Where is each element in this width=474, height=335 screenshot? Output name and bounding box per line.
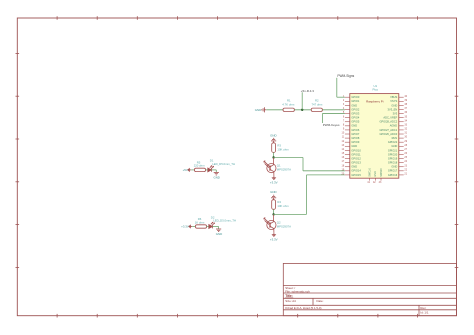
junction B <box>272 213 274 215</box>
ground chain GND symbol <box>262 107 266 112</box>
transistor Q2 <box>264 214 276 233</box>
resistor R2 <box>311 108 322 111</box>
svg-text:GND: GND <box>216 232 222 236</box>
LED D1 <box>208 166 214 172</box>
svg-text:Raspberry Pi: Raspberry Pi <box>366 99 384 103</box>
junction A <box>301 109 303 111</box>
svg-text:GPIO26_ADC0: GPIO26_ADC0 <box>379 132 397 136</box>
wire R2 to GPIO2 <box>322 109 345 111</box>
svg-text:747 ohm: 747 ohm <box>312 103 324 107</box>
U1 right pin names <box>379 95 397 177</box>
svg-text:GPIO0: GPIO0 <box>351 95 359 99</box>
svg-text:+5V: +5V <box>183 168 188 172</box>
svg-text:3V3: 3V3 <box>393 111 398 115</box>
svg-text:PWM-Signs: PWM-Signs <box>337 74 354 78</box>
ground L2 LED GND symbol <box>216 229 221 232</box>
transistor Q1 <box>264 158 276 177</box>
svg-text:GND: GND <box>351 103 357 107</box>
svg-text:GPIO8: GPIO8 <box>351 136 359 140</box>
frame zone ticks top/bottom <box>57 16 417 317</box>
svg-text:VBUS: VBUS <box>390 95 397 99</box>
svg-text:GPIO12: GPIO12 <box>351 156 361 160</box>
wire Q2 collector to GPIO15 <box>274 213 307 215</box>
wire label to GPIO0 <box>336 78 338 97</box>
wire D1 to GND <box>211 169 216 171</box>
svg-text:+3.3V: +3.3V <box>270 237 278 241</box>
svg-text:GND: GND <box>213 176 219 180</box>
svg-text:GPIO17: GPIO17 <box>388 169 398 173</box>
svg-text:VSYS: VSYS <box>390 99 397 103</box>
svg-text:AGND: AGND <box>390 124 398 128</box>
svg-text:File: schematic.sch: File: schematic.sch <box>285 289 310 293</box>
wire +5V to R5 <box>191 169 194 171</box>
wire Q1 collector to GPIO14 <box>274 157 303 159</box>
power +3.3V B <box>272 233 275 237</box>
svg-text:Title:: Title: <box>285 294 293 298</box>
svg-text:3V3_EN: 3V3_EN <box>388 107 398 111</box>
svg-text:GPIO10: GPIO10 <box>351 148 361 152</box>
svg-text:10K ohm: 10K ohm <box>277 204 289 208</box>
svg-text:GPIO1: GPIO1 <box>351 99 359 103</box>
U1 right pin stubs <box>399 97 404 175</box>
svg-text:SWDIO: SWDIO <box>380 168 383 176</box>
U1 bottom pin numbers 41 42 43 <box>367 181 382 184</box>
svg-text:1K ohm: 1K ohm <box>195 220 205 224</box>
svg-text:GPIO7: GPIO7 <box>351 132 359 136</box>
svg-text:GPIO20: GPIO20 <box>388 152 398 156</box>
svg-text:LED_D5.0mm_TH: LED_D5.0mm_TH <box>213 219 236 223</box>
svg-text:Pico: Pico <box>372 88 378 92</box>
junction A <box>272 156 274 158</box>
svg-text:GPIO3: GPIO3 <box>351 111 359 115</box>
svg-text:SWCLK: SWCLK <box>368 168 371 177</box>
svg-text:GPIO19: GPIO19 <box>388 156 398 160</box>
wire R1 to junction to R2 <box>294 109 311 111</box>
power +3.3V A <box>272 176 275 180</box>
svg-text:PWM-Keyes: PWM-Keyes <box>323 123 340 127</box>
LED D2 <box>209 222 215 228</box>
ground A GND symbol <box>271 138 276 143</box>
resistor R5 <box>194 168 205 171</box>
svg-text:GPIO5: GPIO5 <box>351 120 359 124</box>
svg-text:GPIO9: GPIO9 <box>351 140 359 144</box>
ground L1 LED GND symbol <box>214 172 219 175</box>
ground B GND symbol <box>271 195 276 200</box>
title block outline <box>283 263 456 315</box>
wire R6 to D2 <box>207 226 209 228</box>
svg-text:220 ohm: 220 ohm <box>194 164 206 168</box>
U1 bottom pins SWCLK GND SWDIO <box>370 178 381 180</box>
svg-text:GND: GND <box>351 165 357 169</box>
U1 bottom pin names vertical <box>368 168 382 177</box>
svg-text:Rev:: Rev: <box>420 306 426 310</box>
svg-text:GND: GND <box>270 190 276 194</box>
wire +3.3V to R6 <box>192 226 195 228</box>
svg-text:4.7K ohm: 4.7K ohm <box>282 103 295 107</box>
svg-text:GPIO13: GPIO13 <box>351 161 361 165</box>
svg-text:MPS2907A: MPS2907A <box>277 224 291 228</box>
resistor R4 <box>272 200 276 210</box>
wire R4 to junction <box>273 209 275 214</box>
wire D2 to GND <box>212 226 218 228</box>
wire junction up to label <box>301 92 303 110</box>
svg-text:GND: GND <box>351 124 357 128</box>
svg-text:GPIO6: GPIO6 <box>351 128 359 132</box>
U1 left pin stubs <box>345 97 350 175</box>
resistor R1 <box>283 108 294 111</box>
svg-text:GPIO2: GPIO2 <box>351 107 359 111</box>
svg-text:GND: GND <box>391 144 397 148</box>
wire GND to R1 <box>266 109 283 111</box>
svg-text:GPIO28_ADC2: GPIO28_ADC2 <box>379 120 397 124</box>
svg-text:GPIO15: GPIO15 <box>351 173 361 177</box>
svg-text:GPIO27_ADC1: GPIO27_ADC1 <box>379 128 397 132</box>
wire PWM-Keyes to GPIO3 <box>322 113 345 115</box>
svg-text:GPIO18: GPIO18 <box>388 161 398 165</box>
svg-text:GND: GND <box>270 133 276 137</box>
wire R5 to D1 <box>206 169 208 171</box>
svg-text:ADC_VREF: ADC_VREF <box>383 116 397 120</box>
svg-text:10K ohm: 10K ohm <box>277 147 289 151</box>
svg-text:+3.3V: +3.3V <box>181 224 189 228</box>
svg-text:GPIO16: GPIO16 <box>388 173 398 177</box>
resistor R6 <box>195 225 206 228</box>
svg-text:GPIO11: GPIO11 <box>351 152 361 156</box>
op-amp U1 Raspberry Pi Pico body <box>350 94 399 179</box>
wire R3 to junction <box>273 152 275 157</box>
svg-text:Id: 1/1: Id: 1/1 <box>420 311 428 315</box>
svg-text:GPIO4: GPIO4 <box>351 116 359 120</box>
svg-text:GPIO22: GPIO22 <box>388 140 398 144</box>
svg-text:Size: A4: Size: A4 <box>285 299 296 303</box>
svg-text:+3.3V: +3.3V <box>270 181 278 185</box>
svg-text:GND: GND <box>351 144 357 148</box>
resistor R3 <box>272 143 276 153</box>
svg-text:GPIO21: GPIO21 <box>388 148 398 152</box>
U1 left pin numbers <box>342 95 345 176</box>
frame zone ticks left/right <box>16 53 459 267</box>
svg-text:MPS2907A: MPS2907A <box>277 168 291 172</box>
svg-text:GND: GND <box>255 108 261 112</box>
svg-text:KiCad E.D.A. kicad (5.1.5-0): KiCad E.D.A. kicad (5.1.5-0) <box>285 306 321 310</box>
svg-text:GPIO14: GPIO14 <box>351 169 361 173</box>
svg-text:GND: GND <box>391 103 397 107</box>
U1 right pin numbers <box>404 95 407 176</box>
svg-text:GND: GND <box>391 165 397 169</box>
svg-text:LED_D5.0mm_TH: LED_D5.0mm_TH <box>212 162 235 166</box>
svg-text:Date:: Date: <box>317 299 324 303</box>
svg-text:RUN: RUN <box>392 136 398 140</box>
svg-text:+5v-R.4.3: +5v-R.4.3 <box>301 89 314 93</box>
svg-text:GND: GND <box>374 171 377 177</box>
U1 left pin names <box>351 95 361 177</box>
